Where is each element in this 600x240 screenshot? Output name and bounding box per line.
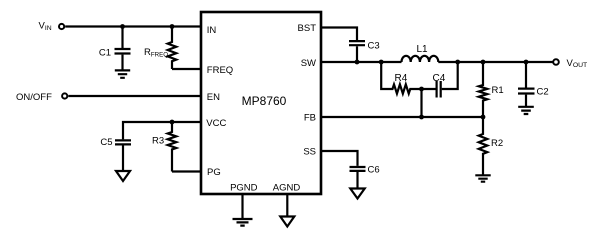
svg-text:MP8760: MP8760 — [242, 94, 287, 108]
svg-text:C6: C6 — [368, 165, 380, 176]
svg-text:SS: SS — [303, 147, 316, 158]
svg-text:C2: C2 — [537, 87, 549, 98]
svg-text:L1: L1 — [416, 44, 428, 55]
svg-text:C1: C1 — [99, 47, 111, 58]
svg-text:VCC: VCC — [206, 118, 226, 129]
svg-text:BST: BST — [298, 23, 317, 34]
svg-text:C3: C3 — [368, 41, 380, 52]
svg-text:C4: C4 — [433, 73, 446, 84]
svg-text:PGND: PGND — [230, 183, 258, 194]
svg-text:FREQ: FREQ — [207, 65, 233, 76]
svg-text:IN: IN — [207, 25, 217, 36]
svg-text:R4: R4 — [395, 73, 408, 84]
svg-text:ON/OFF: ON/OFF — [16, 92, 52, 103]
svg-text:C5: C5 — [100, 137, 112, 148]
svg-text:PG: PG — [207, 167, 221, 178]
svg-text:SW: SW — [301, 58, 316, 69]
svg-text:AGND: AGND — [273, 183, 301, 194]
svg-text:FB: FB — [304, 113, 316, 124]
svg-text:R2: R2 — [491, 138, 503, 149]
svg-text:R3: R3 — [152, 136, 164, 147]
svg-text:R1: R1 — [492, 85, 504, 96]
svg-text:EN: EN — [207, 92, 220, 103]
